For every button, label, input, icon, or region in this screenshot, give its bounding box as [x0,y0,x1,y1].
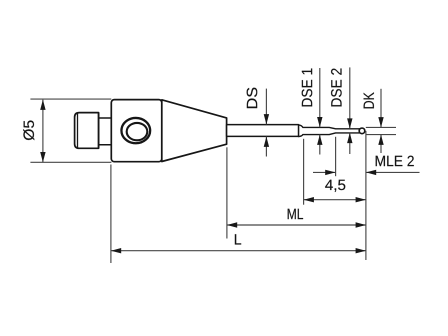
dim Ø5 arrow down [40,152,45,162]
dim DK ball extension bottom [366,134,396,136]
tip DSE1/DSE2 profile [299,125,360,137]
set screw hole inner circle [127,123,148,140]
dim DS arrow up [264,137,269,147]
dim DSE2 line upper [349,67,351,128]
thread chamfer line [77,113,79,148]
ball DK [359,128,365,134]
extension line DSE1 start (4,5 left) [303,139,305,205]
dim DSE2 arrow up [347,133,352,143]
dim DK arrow up [378,135,383,145]
dim Ø5 extension top [30,98,111,100]
dim DSE2 line lower [349,133,351,154]
extension line cone end (ML left) [226,147,228,238]
dim DK arrow down [378,117,383,127]
label DS [247,88,258,108]
dim DS line lower [265,137,267,157]
dim MLE2 right tail [366,171,420,173]
label MLE 2 [376,156,414,167]
thread right face [98,113,100,149]
stem DS [227,125,299,137]
dim Ø5 arrow up [40,100,45,110]
dim MLE2 left tail [313,171,336,173]
label L [235,234,241,244]
set screw hole outer circle [121,118,150,143]
cone taper [162,100,227,162]
dim DS line upper [265,89,267,125]
dim MLE2 arrow left [366,170,376,175]
thread M3 left cylinder [75,113,99,149]
dim 4,5 arrow right [356,197,366,202]
label 4,5 [325,180,345,192]
dim Ø5 line [42,100,44,163]
label Ø5 [23,120,34,140]
dim 4,5 line [304,199,366,201]
dim L arrow right [356,248,366,253]
dim DSE1 line lower [319,135,321,155]
label DSE 2 [331,69,342,107]
dim ML arrow left [227,222,237,227]
dim DSE1 arrow down [317,117,322,127]
dim ML arrow right [356,222,366,227]
thread relief groove [99,118,112,145]
dim 4,5 arrow left [304,197,314,202]
extension line ball right tangent (long vertical) [365,131,367,260]
dim DK line lower [380,135,382,153]
dim Ø5 extension bottom [30,161,111,163]
extension line DSE2 start (MLE2 left) [335,137,337,176]
dim L line [111,250,366,252]
holder block [111,100,162,162]
label DSE 1 [302,69,313,107]
dim MLE2 arrow right [325,170,335,175]
dim DSE1 line upper [319,68,321,127]
dim DK ball extension top [366,126,396,128]
dim DSE1 arrow up [317,135,322,145]
label DK [364,92,374,108]
label ML [288,209,303,219]
dim DS arrow down [264,114,269,124]
dim L arrow left [111,248,121,253]
dim ML line [227,224,366,226]
dim DK line upper [380,89,382,128]
dim DSE2 arrow down [347,118,352,128]
extension line block face (L left) [110,165,112,264]
